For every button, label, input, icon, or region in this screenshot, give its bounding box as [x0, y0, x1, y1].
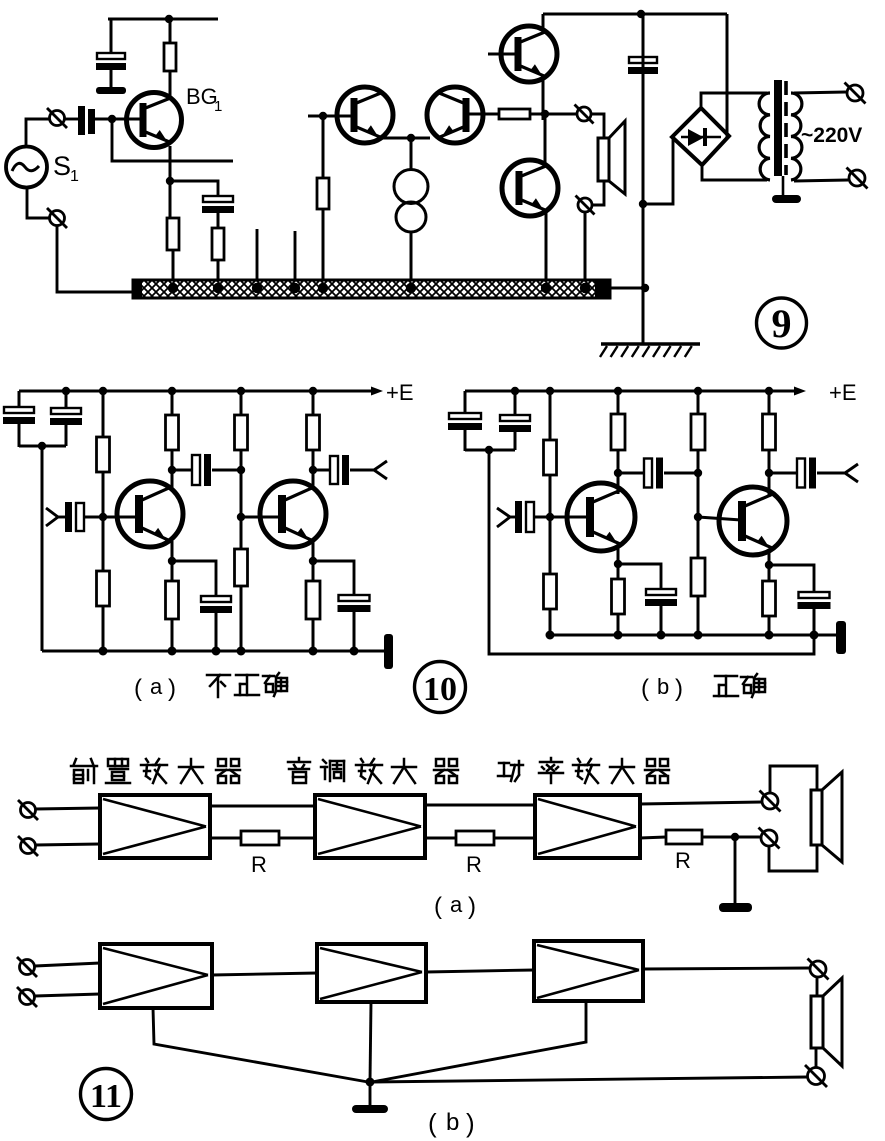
wire: emitter junction to bypass branch [170, 181, 218, 196]
wire: B2 to B3 [426, 970, 534, 972]
wire: rail to cap B [65, 391, 68, 408]
node: output node [541, 110, 549, 118]
wire: junction to current source [410, 138, 413, 170]
wire: load to node [171, 450, 174, 470]
wire: secondary bottom lead [794, 180, 848, 181]
wire: stage-1 supply rail [108, 18, 218, 21]
capacitor: emitter bypass1 b [646, 589, 676, 595]
wire: core to chassis [782, 176, 785, 196]
ground (bar) below C1 [96, 87, 126, 94]
wire: A1 to R1 [210, 837, 241, 840]
wire: cap A down b [464, 430, 467, 451]
wire: rail end to cap A b [464, 391, 467, 413]
wire: emitter1 to bypass b [618, 564, 661, 589]
svg-text:): ) [675, 675, 683, 702]
wire: secondary top lead [794, 92, 846, 93]
resistor R (1) [241, 831, 279, 845]
wire: jack to coupling cap [65, 118, 78, 121]
svg-text:~220V: ~220V [801, 124, 862, 147]
svg-text:(: ( [641, 675, 649, 702]
wire: stray lead 2 [294, 231, 297, 281]
figure 9: single-ended amplifier with power supply [6, 10, 868, 357]
capacitor: supply cap A [4, 407, 34, 413]
wire: node1 to interstage cap b [618, 472, 644, 475]
terminal: speaker B bottom [805, 1065, 827, 1087]
resistor: series resistor to output node [499, 109, 530, 119]
transistor T1 (stage 1) [117, 481, 183, 547]
capacitor: supply cap B [51, 408, 81, 414]
wire: chain to bottom rail [102, 606, 105, 651]
capacitor: interstage coupling [192, 455, 200, 485]
wire: BG1 emitter down [169, 146, 172, 218]
wire: jack to speaker [591, 114, 604, 138]
node: bus junction bypass branch [213, 283, 223, 293]
wire: +E rail [19, 390, 374, 393]
node: rail b junction chain1 [546, 631, 555, 640]
wire: junction to rectifier [643, 137, 673, 204]
svg-text:9: 9 [772, 301, 792, 346]
capacitor: emitter bypass 2 [339, 595, 370, 601]
wire: node2 to output cap b [769, 472, 797, 475]
svg-text:b: b [657, 674, 669, 699]
wire: cap to base b [534, 516, 589, 519]
svg-text:R: R [251, 852, 267, 877]
capacitor: input coupling [65, 502, 72, 532]
terminal: output fork [350, 461, 387, 479]
node: bus junction stray lead 2 [290, 283, 300, 293]
wire: fork to cap b [508, 516, 516, 519]
capacitor: emitter bypass 1 [201, 596, 231, 602]
wire: lower jack to bus [584, 213, 587, 283]
node: emitter node 2 [309, 557, 317, 565]
amplifier block A2 [315, 795, 425, 858]
svg-text:a: a [150, 674, 163, 699]
wire: left ground return [41, 446, 44, 651]
wire: chain1 mid b [549, 475, 552, 574]
node: emitter node2 b [765, 561, 773, 569]
resistor: collector load 1 [166, 415, 179, 450]
node: rail junction R-collector 2 [309, 387, 317, 395]
svg-text:(: ( [434, 893, 442, 920]
wire: A3 to R3 [640, 837, 666, 838]
terminal: input B bottom [17, 987, 37, 1007]
amplifier block A3 [535, 795, 640, 858]
wire: bottom ground rail [42, 650, 388, 653]
label: preamplifier (hanzi) [71, 759, 240, 783]
wire: terminal to speaker rect [816, 977, 819, 996]
resistor: lower bias R [97, 571, 110, 606]
current source (stacked circles) [394, 170, 428, 233]
ground (bar) fig11a [719, 903, 752, 912]
transistor BG1 [127, 93, 182, 148]
ground (bar) under transformer core [772, 195, 801, 203]
amplifier block B2 [317, 944, 426, 1002]
resistor R (2) [456, 831, 494, 845]
capacitor: emitter bypass2 b [799, 592, 830, 598]
node: rail junction load1 b [614, 387, 622, 395]
wire: joined emitters [383, 137, 430, 140]
wire: S1 bottom to lower jack [27, 188, 49, 218]
wire: A1 to A2 top [210, 805, 315, 808]
node: divider tap [237, 466, 245, 474]
node: junction at chain2 b [694, 469, 702, 477]
wire: emitter R2 to rail b [768, 616, 771, 635]
caption (a) fig11 [434, 892, 476, 920]
wire: cap B down [65, 425, 68, 446]
wire: rectifier top to transformer primary [701, 93, 767, 108]
wire: current source to bus [410, 232, 413, 283]
svg-text:(: ( [428, 1108, 437, 1138]
capacitor C1 (decoupling electrolytic) [97, 53, 125, 59]
svg-text:1: 1 [214, 98, 222, 115]
wire: cap to base [84, 516, 141, 519]
transistor T2 (stage 2) [260, 481, 326, 547]
wire: S1 to input jack [26, 119, 49, 147]
wire: base junction down [322, 116, 325, 178]
wire: feedback line down and right [112, 119, 233, 161]
node: rail junction cap2 b [511, 387, 519, 395]
label: power amplifier (hanzi) [498, 758, 669, 783]
terminal: input fork [46, 508, 58, 526]
speaker LS (fig 11b) [811, 978, 842, 1066]
resistor: upper bias R [97, 437, 110, 472]
wire: B2 ground drop [370, 1002, 371, 1082]
arrow: rail arrowhead [371, 387, 383, 396]
capacitor: output coupling [330, 456, 338, 484]
node: base node1 b [546, 513, 554, 521]
wire: emitter R to rail [171, 619, 174, 651]
node: emitter node1 b [614, 560, 622, 568]
wire: R3 to speaker [702, 836, 760, 839]
terminal: speaker jack bottom [576, 196, 595, 215]
wire: chain mid [102, 472, 105, 571]
capacitor: supply cap B b [500, 415, 530, 421]
terminal: mains terminal top [845, 83, 866, 104]
wire: cap to BG1 base [95, 118, 143, 121]
wire: A3 out top [640, 802, 762, 804]
transistor Q2 (driver) [337, 87, 393, 143]
node: common ground node [366, 1078, 375, 1087]
wire: input A leads [35, 808, 100, 845]
speaker LS1 [598, 121, 625, 194]
node: driver base junction [319, 112, 327, 120]
wire: load1 to node b [617, 450, 620, 473]
wire: resistor to output node [530, 113, 577, 116]
wire: cap A down [18, 424, 21, 447]
wire: cap join [19, 445, 66, 448]
transistor T3 (stage 1 correct) [567, 483, 635, 551]
wire: B3 ground drop [372, 1001, 586, 1082]
resistor: collector load2 b [763, 414, 776, 450]
wire: bias chain1 b [549, 391, 552, 440]
wire: base lead2 b [698, 517, 741, 520]
node: BG1 emitter junction [166, 177, 174, 185]
node: rail b junction bypass1 [657, 631, 666, 640]
resistor: emitter R 2 [306, 581, 320, 619]
ground bus bar (hatched) [133, 279, 610, 299]
node: rail junction chain2 b [694, 387, 702, 395]
wire: T4 collector [768, 473, 771, 497]
figure number 9 (circled) [757, 298, 807, 348]
terminal: input jack bottom [47, 208, 67, 228]
transistor T4 (stage 2 correct) [719, 487, 787, 555]
wire: speaker A top loop [770, 766, 817, 793]
wire: rail to load 1 [171, 391, 174, 415]
capacitor: output coupling b [797, 459, 805, 488]
wire: emitter to bypass cap [172, 561, 216, 596]
label: tone amplifier (hanzi) [288, 758, 458, 783]
resistor: bypass branch resistor [212, 228, 224, 260]
node: base junction [108, 115, 116, 123]
wire: bypass2 to rail [353, 612, 356, 651]
wire: speaker rect to bottom terminal [815, 1048, 818, 1068]
node: bus junction current source [406, 283, 416, 293]
wire: main vertical supply return [642, 14, 645, 344]
wire: node1 to interstage cap [172, 469, 192, 472]
resistor: driver base resistor [317, 178, 329, 209]
node: collector node1 b [614, 469, 622, 477]
amplifier block B1 [100, 944, 212, 1008]
wire: rail to cap B b [514, 391, 517, 415]
svg-text:(: ( [134, 675, 142, 702]
wire: B3 to speaker B [643, 968, 810, 969]
wire: R1 to BG1 collector [169, 71, 172, 96]
signal source S1 [6, 147, 47, 188]
wire: chain2 mid [240, 450, 243, 549]
wire: rail to load2 b [768, 391, 771, 414]
wire: chain 2 top [240, 391, 243, 415]
node: bottom junction bypass1 [212, 647, 221, 656]
resistor: chain2 lower R [235, 549, 248, 586]
figure number 10 (circled) [415, 662, 466, 713]
node: bottom junction emitter2 [309, 647, 318, 656]
wire: C1 to ground bar [110, 69, 113, 88]
caption (b) correct [641, 674, 765, 702]
speaker LS (fig 11a) [811, 772, 842, 862]
arrow: rail arrowhead b [794, 387, 806, 396]
terminal: speaker A top [760, 791, 781, 812]
wire: caps join b [465, 449, 515, 452]
node: rail junction [637, 10, 645, 18]
ground (bar) fig11b [352, 1105, 388, 1113]
bridge rectifier D1-D4 [672, 108, 729, 165]
transistor Q4 (upper output) [501, 26, 557, 82]
svg-text:11: 11 [90, 1078, 122, 1115]
svg-text:R: R [675, 848, 691, 873]
resistor: collector load1 b [611, 414, 625, 450]
wire: emitter resistor to bus [172, 250, 175, 283]
caption (a) incorrect [134, 673, 287, 702]
node: rail b junction bypass2 [810, 631, 819, 640]
wire: R1 to A2 [279, 837, 315, 840]
node: collector node2 b [765, 469, 773, 477]
wire: Q5 emitter to bus [545, 211, 548, 283]
svg-text:10: 10 [423, 671, 457, 708]
figure 10b: correct two-stage amplifier [448, 380, 858, 702]
wire: Q4 base stub [488, 53, 518, 56]
transistor Q3 (phase splitter, mirrored) [427, 87, 483, 143]
node: emitter junction [407, 134, 415, 142]
wire: output stage supply rail [543, 13, 727, 16]
terminal: speaker B top [808, 959, 829, 980]
transformer T1 [759, 80, 802, 180]
wire: chain2 top b [697, 391, 700, 414]
wire: bias chain 1 [102, 391, 105, 437]
resistor R (3) [666, 830, 702, 844]
wire: junction to ground [734, 837, 737, 904]
transistor Q5 (lower output) [502, 160, 558, 216]
resistor R1 (BG1 collector load) [164, 43, 176, 71]
wire: T1 collector [171, 470, 174, 490]
terminal: input jack top [47, 108, 67, 128]
svg-text:+E: +E [829, 380, 857, 405]
node: rail junction bias chain [99, 387, 107, 395]
svg-text:b: b [446, 1109, 459, 1136]
wire: base lead 2 [241, 516, 284, 519]
wire: emitter R1 to rail b [617, 614, 620, 635]
capacitor: interstage coupling b [644, 459, 652, 488]
node: collector node 1 [168, 466, 176, 474]
svg-text:1: 1 [70, 168, 79, 185]
amplifier block B3 [534, 941, 643, 1001]
svg-text:S: S [53, 151, 71, 181]
resistor: BG1 emitter resistor [167, 218, 179, 250]
wire: rail drop to decoupling cap [110, 19, 113, 53]
node: bottom junction emitter1 [168, 647, 177, 656]
node: base node2 b [694, 513, 702, 521]
wire: ground stem [369, 1082, 372, 1106]
node: bottom junction bypass2 [350, 647, 359, 656]
wire: left ground return b (to bottom) [489, 450, 814, 654]
wire: resistor to bus [322, 209, 325, 283]
wire: cap B down b [514, 432, 517, 450]
wire: rail end down to cap A [18, 391, 21, 407]
wire: A2 to A3 top [425, 804, 535, 807]
svg-text:R: R [466, 852, 482, 877]
node: base node 1 [99, 513, 107, 521]
node: rail b junction emitter1 [614, 631, 623, 640]
node: bottom junction chain2 [237, 647, 246, 656]
wire: B1 to B2 [212, 973, 317, 975]
wire: chain2 mid b [697, 450, 700, 558]
node: speaker return junction [731, 833, 739, 841]
caption (b) fig11 [428, 1108, 475, 1138]
node: caps junction [38, 442, 46, 450]
wire: output node to Q5 [544, 114, 547, 165]
node: rail b junction chain2 [694, 631, 703, 640]
capacitor: input coupling b [515, 501, 522, 533]
wire: T3 collector [617, 473, 620, 494]
wire: rail to R1 [169, 19, 172, 43]
wire: driver base lead [308, 115, 354, 118]
wire: branch to bus [217, 260, 220, 283]
node: ground line junction [641, 284, 649, 292]
node: rail junction R-collector 1 [168, 387, 176, 395]
wire: chain1 bottom b [549, 609, 552, 635]
node: bus junction Q5 emitter [541, 283, 551, 293]
wire: Q4 collector to rail [542, 14, 545, 29]
wire: T4 emitter [768, 549, 771, 581]
wire: rail to load1 b [617, 391, 620, 414]
node: rail junction load2 b [765, 387, 773, 395]
resistor: chain1 upper b [544, 440, 557, 475]
wire: T2 emitter [312, 541, 315, 581]
capacitor: main filter electrolytic [629, 57, 657, 63]
resistor: chain2 upper b [691, 414, 705, 450]
wire: T3 emitter [617, 545, 620, 579]
wire: input B leads [35, 963, 100, 996]
wire: bus to main ground line [609, 287, 643, 290]
wire: chain2 bottom [240, 586, 243, 651]
terminal: input fork b [497, 508, 510, 527]
resistor: emitter R 1 [166, 581, 179, 619]
wire: bypass1 to rail b [660, 606, 663, 635]
node: base node 2 [237, 513, 245, 521]
wire: A2 to R2 [425, 837, 456, 840]
wire: emitter ground rail b [546, 634, 838, 637]
wire: R2 to A3 [494, 837, 535, 840]
terminal: output fork b [817, 464, 858, 482]
ground (bar) fig10b [836, 621, 846, 654]
node: bus junction BG1 emitter [168, 283, 178, 293]
wire: bypass2 to rail b [813, 609, 816, 635]
terminal: mains terminal bottom [847, 168, 868, 189]
wire: B1 ground drop [153, 1008, 368, 1082]
wire: node2 to output cap [313, 469, 330, 472]
wire: chain2 bottom b [697, 596, 700, 635]
figure 10a: incorrect two-stage amplifier [3, 380, 466, 713]
resistor: collector load 2 [307, 415, 320, 450]
wire: cap to resistor [217, 213, 220, 228]
node: rail junction chain 2 [237, 387, 245, 395]
wire: emitter 2 to bypass cap [313, 561, 354, 595]
wire: ground node to speaker return [370, 1077, 807, 1082]
svg-text:+E: +E [386, 380, 414, 405]
node: bottom junction chain1 [99, 647, 108, 656]
wire: load2 to node b [768, 450, 771, 473]
wire: rectifier plus to supply rail [726, 14, 729, 137]
resistor: emitter R1 b [612, 579, 625, 614]
terminal: speaker jack top [575, 105, 594, 124]
wire: T2 collector [312, 470, 315, 490]
wire: speaker to lower jack [592, 181, 604, 205]
node: rail junction chain1 b [546, 387, 554, 395]
resistor: chain2 lower b [691, 558, 705, 596]
node: rail junction cap2 [62, 387, 70, 395]
node: emitter node 1 [168, 557, 176, 565]
wire: jack to ground bus [57, 226, 133, 292]
node: bus junction driver bias [318, 283, 328, 293]
svg-text:): ) [468, 893, 476, 920]
wire: cap to node2 b [664, 472, 698, 475]
node: caps junction b [485, 446, 493, 454]
resistor: chain1 lower b [544, 574, 557, 609]
svg-text:): ) [466, 1108, 475, 1138]
node: rectifier minus junction [639, 200, 647, 208]
terminal: speaker A bottom [759, 828, 780, 849]
svg-text:): ) [168, 675, 176, 702]
node: bus junction speaker return [580, 283, 590, 293]
figure number 11 (circled) [81, 1069, 132, 1120]
wire: Q4 emitter to output node [542, 77, 545, 120]
terminal: input B top [17, 957, 37, 977]
wire: T1 emitter [171, 541, 174, 581]
wire: stray lead 1 [256, 229, 259, 281]
resistor: emitter R2 b [763, 581, 776, 616]
wire: rectifier bottom to transformer primary [702, 165, 767, 180]
node: collector node 2 [309, 466, 317, 474]
wire: speaker A bottom loop [769, 845, 817, 871]
